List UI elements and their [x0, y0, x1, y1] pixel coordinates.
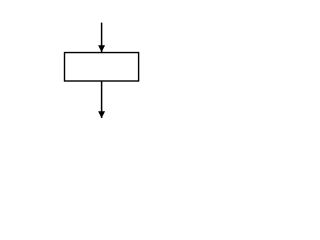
- arrowhead into box: [98, 45, 105, 52]
- arrowhead out of box: [98, 111, 105, 118]
- wire: incoming flow line: [101, 23, 103, 53]
- process box: [65, 53, 139, 81]
- wire: outgoing flow line: [101, 81, 103, 118]
